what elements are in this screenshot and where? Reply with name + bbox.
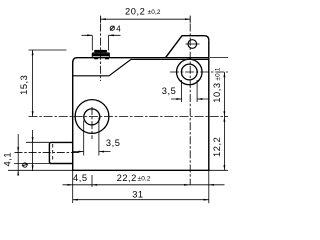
dimension row2 line (73, 199, 209, 201)
housing seam line (73, 59, 209, 75)
centerline right boss horizontal (170, 71, 228, 73)
arrow 31 left (73, 199, 78, 201)
extension line left hole dia right (98, 118, 100, 156)
extension line body bottom right (210, 169, 229, 171)
dimension 3,5 left line (73, 151, 111, 153)
dimension row1 line (63, 184, 225, 186)
arrow pin dia bottom (32, 165, 34, 170)
dimension pin dia line (32, 130, 34, 171)
arrow 4,1 bottom (17, 170, 19, 175)
dimension 15,3 line (32, 50, 34, 117)
extension line right hole dia right (196, 80, 198, 102)
left boss outer circle (75, 100, 109, 134)
arrow 3,5 left dim right (99, 151, 104, 153)
arrow 10,3 top (223, 72, 225, 77)
right boss hole (181, 64, 197, 80)
extension line right hole dia left (181, 80, 183, 102)
dimension 10,3 line (223, 72, 225, 117)
arrow 4,5 left (68, 184, 73, 186)
centerline left boss vertical (91, 107, 93, 139)
dim 20,2 terminator bar left (100, 16, 102, 23)
arrow 3,5 right dim left (176, 98, 181, 100)
svg-text:3,5: 3,5 (162, 86, 177, 96)
extension line pin top (26, 141, 49, 143)
svg-text:12,2: 12,2 (212, 137, 222, 157)
terminal pin (49, 142, 72, 163)
svg-text:4: 4 (116, 24, 121, 33)
dimension 20,2 line (101, 18, 191, 20)
arrow row1 outer right (209, 184, 214, 186)
arrow 10,3 bottom (223, 111, 225, 116)
pin hidden line (52, 144, 54, 162)
extension line left hole dia left (83, 121, 85, 156)
dimension 12,2 line (223, 117, 225, 171)
arrow phi4 right (109, 34, 114, 36)
centerline right axis (189, 24, 191, 186)
arrow 3,5 left dim left (79, 151, 84, 153)
extension line plunger dia right (108, 35, 110, 50)
plunger cap outline (92, 53, 109, 58)
centerline pin axis (15, 151, 80, 153)
centerline plunger axis (100, 24, 102, 82)
arrow phi4 left (87, 34, 92, 36)
extension line body top right (210, 56, 228, 58)
tab hole (188, 40, 197, 49)
label pin dia symbol (22, 163, 28, 167)
label phi4 symbol (110, 26, 114, 31)
dimension 3,5 right line (171, 98, 209, 100)
extension line plunger dia left (91, 35, 93, 50)
extension line body left lower (72, 171, 74, 203)
arrow 4,5 right / 22,2 left (92, 184, 97, 186)
svg-text:31: 31 (132, 189, 143, 199)
extension line left boss center lower (91, 175, 93, 187)
svg-text:4,5: 4,5 (73, 173, 88, 183)
plunger top plate (94, 50, 107, 53)
svg-text:4,1: 4,1 (2, 152, 12, 167)
extension line body right lower (208, 171, 210, 203)
arrow 15,3 top (32, 50, 34, 55)
extension line plunger top (29, 49, 67, 51)
svg-text:22,2±0,2: 22,2±0,2 (117, 173, 151, 183)
arrow 15,3 bottom (32, 111, 34, 116)
plunger foot left (94, 57, 98, 59)
dim 20,2 terminator bar right (189, 16, 191, 23)
plunger band (92, 53, 109, 56)
mounting tab top-right (166, 36, 209, 58)
arrow 20,2 left (101, 18, 106, 20)
plunger foot right (105, 57, 109, 59)
centerline left boss horizontal (29, 116, 229, 118)
arrow 4,1 top (17, 147, 19, 152)
extension line pin bottom (14, 163, 49, 165)
arrow 22,2 right (184, 184, 189, 186)
arrow pin dia top (32, 137, 34, 142)
centerline tab hole horizontal (186, 43, 200, 45)
left boss hole (84, 109, 100, 125)
switch body outline (73, 40, 209, 170)
arrow 20,2 right (185, 18, 190, 20)
extension line body bottom left (8, 169, 72, 171)
arrow 12,2 top (223, 117, 225, 122)
arrow 31 right (204, 199, 209, 201)
right boss outer circle (177, 59, 203, 85)
svg-text:15,3: 15,3 (19, 75, 29, 95)
dimension phi4 line (82, 34, 121, 36)
arrow 12,2 bottom (223, 165, 225, 170)
arrow 3,5 right dim right (197, 98, 202, 100)
svg-text:3,5: 3,5 (106, 138, 121, 148)
dimension 4,1 line (17, 134, 19, 176)
